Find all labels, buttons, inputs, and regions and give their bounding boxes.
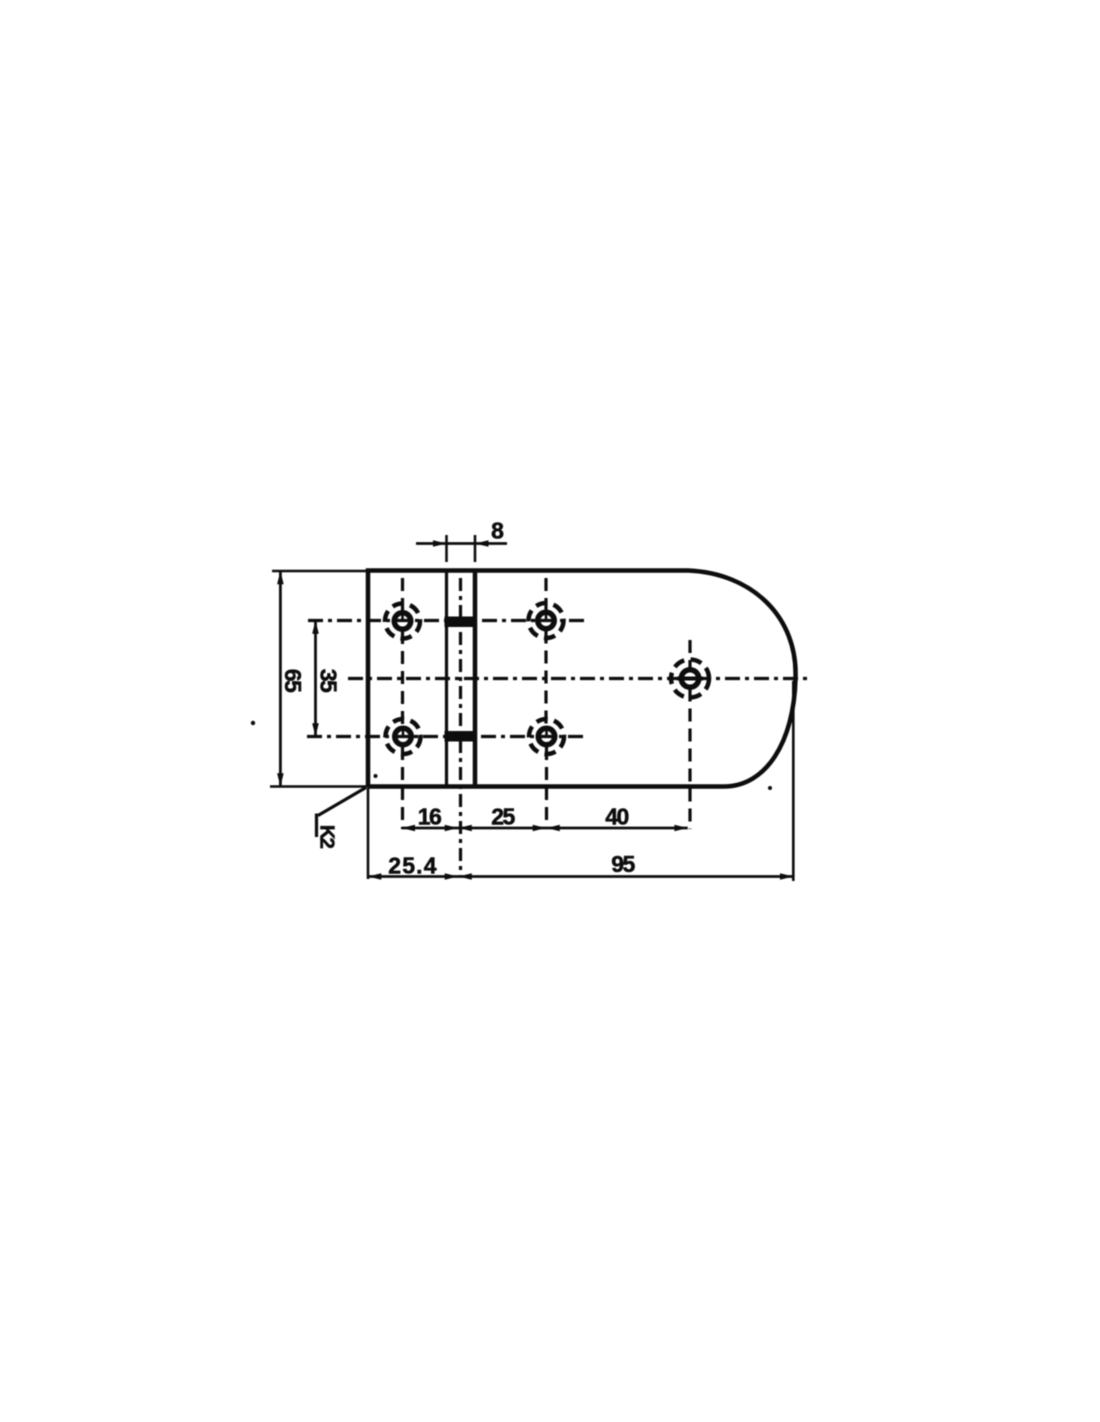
svg-text:40: 40 — [605, 804, 628, 830]
svg-text:25.4: 25.4 — [388, 853, 438, 879]
svg-text:16: 16 — [418, 804, 441, 830]
svg-text:25: 25 — [491, 804, 515, 830]
svg-text:8: 8 — [491, 518, 504, 544]
svg-text:35: 35 — [316, 669, 342, 693]
svg-text:65: 65 — [280, 669, 306, 693]
svg-text:95: 95 — [611, 851, 635, 877]
svg-text:K2: K2 — [315, 825, 338, 849]
